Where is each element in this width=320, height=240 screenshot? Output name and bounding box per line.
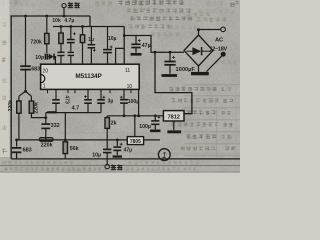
capacitor 683 (upper) — [20, 65, 31, 67]
resistor 220k (right) — [30, 96, 32, 101]
resistor 56k — [64, 139, 67, 142]
wire: V+ drop from rail to IC pin (x=124) — [123, 27, 125, 65]
diode inside bridge — [187, 50, 193, 52]
svg-text:10: 10 — [127, 84, 133, 90]
IC notch — [41, 74, 45, 82]
svg-text:3µ: 3µ — [108, 99, 114, 105]
capacitor 10p + diode chain — [46, 44, 48, 53]
capacitor 4.7u (electrolytic) — [69, 25, 72, 28]
node: bridge feed junctions — [154, 51, 157, 54]
svg-text:M51134P: M51134P — [75, 73, 102, 80]
wire: cluster rail drop to ground rail — [64, 113, 66, 140]
wire: left border and top rail — [11, 16, 90, 159]
svg-text:56k: 56k — [70, 146, 79, 152]
capacitor 10u (top) — [107, 27, 109, 49]
wire: 7812 ground pin — [173, 121, 175, 130]
wire: bridge bottom to ground — [198, 66, 200, 72]
capacitor 100u (second, at 7812 input) — [154, 114, 157, 117]
svg-text:100µ: 100µ — [128, 99, 140, 105]
node: branch Y — [24, 90, 27, 93]
resistor 2k — [106, 116, 108, 118]
svg-text:2k: 2k — [111, 120, 117, 126]
svg-text:220k: 220k — [8, 100, 14, 112]
capacitor 332 — [45, 118, 47, 124]
svg-text:10k: 10k — [52, 18, 61, 24]
svg-text:47µ: 47µ — [124, 148, 133, 154]
svg-text:4.7µ: 4.7µ — [64, 18, 74, 24]
svg-text:10µ: 10µ — [92, 152, 101, 158]
ground: 7812 — [167, 130, 181, 133]
svg-text:AC: AC — [215, 38, 224, 44]
ground bar at cluster rail end — [47, 111, 56, 113]
wire: top rail step down to y=26.5 — [89, 16, 91, 27]
wire: 7805 left pin / ground rail — [17, 139, 128, 141]
regulator 7812 — [163, 111, 184, 121]
ground: below 47u — [131, 53, 142, 56]
wire: 7805 right pin — [144, 139, 160, 141]
wire: output stub — [63, 8, 65, 16]
svg-text:10p: 10p — [35, 55, 44, 61]
ground: bridge negative — [191, 72, 209, 75]
capacitor 1u — [90, 27, 92, 45]
capacitor 473 — [55, 89, 57, 99]
node: ground rail left — [15, 139, 18, 142]
node: output wire junction — [63, 15, 66, 18]
capacitor 10u (input) — [106, 128, 108, 148]
wire: 7812 loop from bridge wire down and around — [155, 52, 192, 113]
svg-text:47µ: 47µ — [142, 43, 151, 49]
svg-text:720k: 720k — [30, 40, 42, 46]
IC U1 M51134P — [41, 64, 140, 89]
node: 332 junction — [44, 116, 47, 119]
svg-text:1: 1 — [43, 84, 46, 90]
ground: below 1000uF — [162, 74, 178, 77]
label: 输出 (output) — [68, 3, 73, 4]
svg-text:100µ: 100µ — [139, 124, 151, 130]
terminal: output (circle) — [62, 4, 66, 8]
resistor 720k — [45, 15, 48, 18]
svg-text:4.7: 4.7 — [72, 106, 80, 112]
wire: branch to 47u and bridge feed — [124, 36, 184, 53]
capacitor 47u (bottom) — [116, 139, 119, 142]
IC bottom pin stubs — [47, 89, 49, 93]
svg-text:12~18V: 12~18V — [210, 47, 228, 53]
capacitor 683 (lower) — [16, 140, 18, 147]
svg-text:20: 20 — [43, 68, 49, 74]
wire: rail to 7805 — [133, 114, 136, 117]
wire: bottom cluster rail — [46, 112, 101, 114]
svg-text:11: 11 — [125, 68, 130, 74]
svg-text:1: 1 — [162, 150, 167, 160]
svg-text:683: 683 — [23, 147, 32, 153]
wire: bridge top to AC terminal — [198, 30, 200, 36]
svg-text:220k: 220k — [41, 142, 53, 148]
terminal: AC bottom (filled circle) — [221, 52, 226, 57]
capacitor 47u (top) — [135, 36, 137, 44]
resistor 220k (left) — [18, 96, 20, 101]
capacitor (bottom cluster c) — [100, 89, 102, 99]
wire: AC bottom terminal to ground bar — [207, 55, 223, 71]
resistor 10k — [60, 25, 63, 28]
capacitor 100u (pin10 area) — [123, 89, 125, 99]
svg-text:10µ: 10µ — [108, 36, 117, 42]
svg-text:1µ: 1µ — [88, 37, 94, 43]
wire: 683 branch from rail — [24, 15, 27, 18]
node: junction at (124,35.5) — [123, 34, 126, 37]
label: 输入 (input) — [111, 165, 116, 166]
wire: Y branch to two 220k — [19, 91, 32, 96]
annotation: circled 1 — [158, 149, 170, 161]
svg-text:473: 473 — [64, 95, 70, 104]
capacitor (polarized, bottom cluster b) — [87, 89, 89, 99]
wire: jumper branch to IC pin (x=115.6) — [116, 48, 125, 64]
regulator 7805 — [127, 137, 143, 145]
svg-text:7812: 7812 — [167, 115, 179, 121]
wire: second rail y=26.5 — [53, 26, 124, 28]
svg-text:220k: 220k — [33, 102, 39, 114]
wire: 7812 output pin left to rail — [107, 115, 163, 117]
svg-text:683: 683 — [31, 67, 40, 73]
wire: up to cluster rail — [45, 113, 47, 118]
wire: bottom border — [11, 158, 240, 160]
resistor 220k (horizontal, in ground rail) — [39, 138, 53, 142]
svg-text:332: 332 — [51, 123, 60, 129]
terminal: input (circle) — [105, 164, 109, 168]
svg-text:7805: 7805 — [130, 139, 141, 145]
wire: IC pin10 drop to rail — [138, 89, 140, 115]
bridge rectifier (diamond) — [184, 35, 213, 66]
capacitor 1000uF (electrolytic) — [169, 52, 171, 61]
resistor (third in cluster) — [81, 25, 84, 28]
terminal: AC top (circle) — [221, 27, 226, 32]
